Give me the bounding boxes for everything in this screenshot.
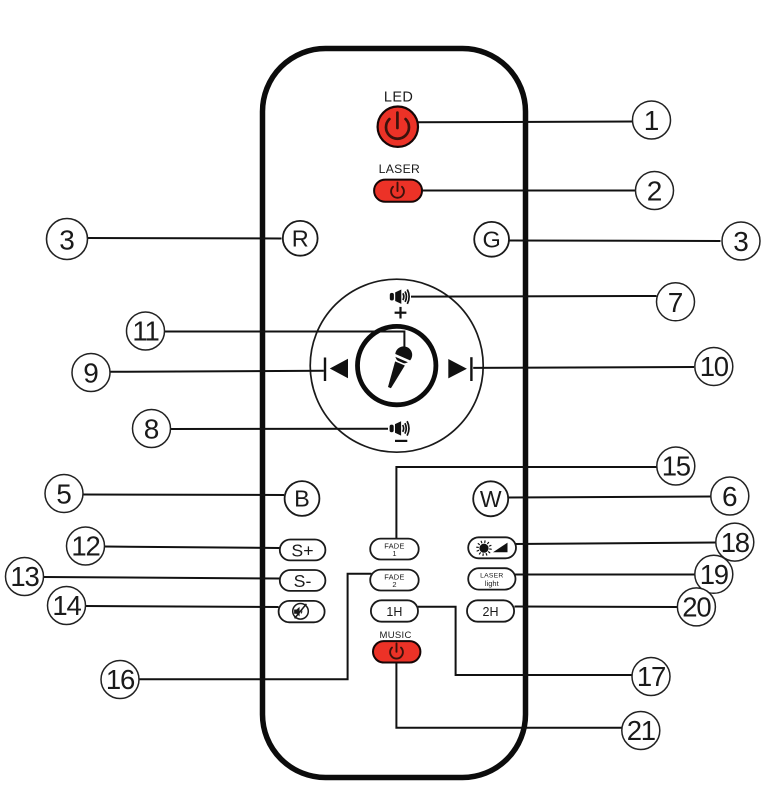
wire callout-1 line — [417, 121, 634, 124]
callout 16 — [101, 661, 139, 699]
svg-text:7: 7 — [668, 287, 684, 318]
svg-text:5: 5 — [56, 479, 72, 510]
svg-text:10: 10 — [700, 351, 729, 382]
svg-text:16: 16 — [106, 664, 135, 695]
label volume minus — [395, 440, 407, 442]
wire callout-15 line (from FADE1 up and right) — [396, 467, 657, 539]
svg-text:1H: 1H — [386, 605, 402, 619]
wire callout-2 line — [421, 190, 636, 192]
svg-text:6: 6 — [722, 481, 738, 512]
icon prev-track — [325, 358, 348, 382]
callout 10 — [695, 348, 733, 386]
wire callout-17 line (from 1H right, down, right) — [418, 607, 633, 675]
nav pad outer circle — [310, 279, 483, 452]
callout 5 — [45, 475, 83, 513]
svg-text:12: 12 — [71, 531, 99, 562]
wire callout-12 line — [104, 547, 280, 549]
svg-text:3: 3 — [59, 225, 75, 256]
wire callout-11 line (to microphone) — [164, 332, 404, 349]
svg-text:20: 20 — [682, 592, 711, 623]
wire callout-6 line — [508, 497, 712, 498]
callout 15 — [657, 447, 695, 485]
callout 18 — [716, 523, 754, 561]
wire callout-3-left line — [88, 237, 282, 240]
button LASER (red pill power) — [374, 180, 422, 202]
button R — [283, 221, 318, 256]
nav pad inner circle — [358, 326, 436, 404]
svg-text:17: 17 — [637, 661, 665, 692]
svg-text:2: 2 — [647, 176, 663, 207]
svg-text:G: G — [482, 227, 500, 253]
svg-text:9: 9 — [83, 358, 99, 389]
wire callout-21 line (from MUSIC down, right) — [396, 662, 622, 728]
callout 9 — [72, 354, 110, 392]
svg-text:W: W — [480, 486, 502, 512]
callout 2 — [636, 172, 674, 210]
button 2H — [467, 600, 514, 621]
icon volume-down speaker — [390, 421, 409, 435]
wire callout-16 line (from FADE2 left, down, left) — [140, 574, 372, 680]
callout 12 — [67, 527, 105, 565]
svg-text:13: 13 — [10, 561, 39, 592]
callout 6 — [711, 477, 749, 515]
svg-text:3: 3 — [733, 226, 749, 257]
label volume plus — [395, 307, 407, 319]
icon next-track — [448, 357, 471, 381]
callout 20 — [677, 588, 715, 626]
callout 19 — [695, 555, 733, 593]
callout 3 right — [722, 222, 760, 260]
button B — [285, 481, 320, 516]
callout 1 — [633, 101, 671, 139]
svg-text:14: 14 — [52, 590, 81, 621]
svg-text:LASER: LASER — [379, 162, 420, 176]
button MUSIC (red pill power) — [373, 641, 420, 662]
button S+ — [280, 540, 326, 561]
icon microphone — [380, 343, 416, 392]
svg-text:21: 21 — [627, 715, 655, 746]
wire callout-18 line — [514, 543, 717, 545]
wire callout-19 line — [513, 574, 696, 576]
wire callout-10 line — [473, 366, 694, 369]
wire callout-14 line — [85, 606, 279, 607]
svg-text:1: 1 — [644, 105, 660, 136]
wire callout-9 line — [110, 371, 324, 372]
remote body — [263, 49, 526, 778]
wire callout-3-right line — [510, 240, 721, 243]
callout 11 — [127, 312, 165, 350]
svg-text:S+: S+ — [291, 541, 313, 561]
wire callout-5 line — [83, 494, 285, 497]
button W — [473, 481, 508, 516]
svg-text:2H: 2H — [483, 605, 499, 619]
button G — [474, 222, 509, 257]
button mute — [279, 601, 325, 622]
callout 13 — [6, 558, 44, 596]
icon volume-up speaker — [390, 290, 409, 304]
svg-text:light: light — [485, 579, 500, 588]
svg-text:2: 2 — [392, 580, 396, 589]
callout 21 — [622, 712, 660, 750]
callout 8 — [133, 410, 171, 448]
svg-text:1: 1 — [392, 549, 396, 558]
wire callout-8 line — [170, 428, 388, 430]
svg-text:8: 8 — [144, 414, 160, 445]
callout 7 — [657, 283, 695, 321]
callout 17 — [632, 658, 670, 696]
wire callout-7 line — [411, 295, 657, 298]
button LED (red power) — [378, 107, 418, 147]
callout 14 — [48, 587, 86, 625]
wire callout-13 line — [43, 577, 280, 579]
svg-text:15: 15 — [662, 451, 691, 482]
svg-text:MUSIC: MUSIC — [380, 630, 412, 641]
svg-text:B: B — [294, 486, 310, 512]
button 1H — [371, 600, 418, 621]
svg-text:11: 11 — [132, 316, 158, 347]
button FADE 1 — [370, 539, 419, 560]
wire callout-20 line — [515, 606, 679, 609]
svg-text:R: R — [292, 226, 309, 252]
svg-text:LED: LED — [384, 89, 413, 105]
svg-text:S-: S- — [294, 571, 312, 591]
callout 3 left — [47, 219, 88, 260]
button S- — [280, 570, 326, 591]
svg-text:19: 19 — [700, 559, 728, 590]
button brightness (sun + ramp) — [468, 537, 516, 558]
svg-text:18: 18 — [721, 527, 750, 558]
button FADE 2 — [370, 570, 419, 591]
button LASER light — [468, 568, 515, 589]
